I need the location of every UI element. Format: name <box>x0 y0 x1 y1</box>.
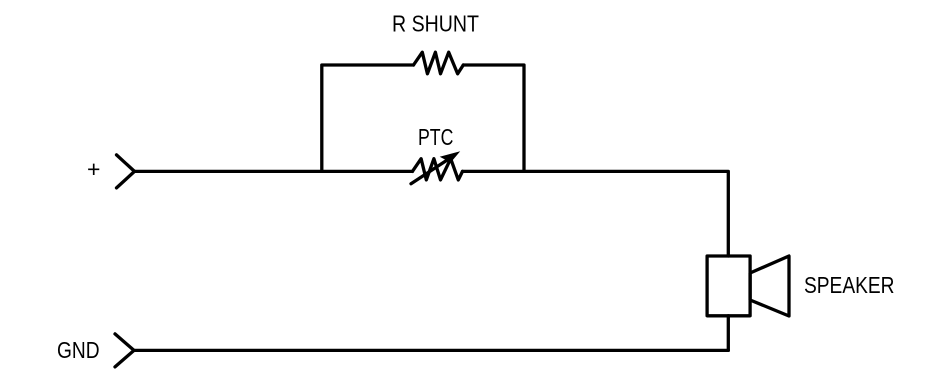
wire gnd rail <box>134 349 728 352</box>
svg-text:SPEAKER: SPEAKER <box>804 272 895 298</box>
wire right shunt branch <box>463 65 524 171</box>
svg-text:GND: GND <box>57 337 100 363</box>
svg-text:PTC: PTC <box>418 124 453 150</box>
wire left shunt branch <box>322 65 414 171</box>
speaker LS1 <box>707 256 894 316</box>
resistor R SHUNT <box>392 11 479 74</box>
wire PTC to speaker <box>463 171 729 256</box>
thermistor PTC <box>411 124 463 184</box>
wire speaker to gnd rail <box>727 316 730 351</box>
svg-text:+: + <box>87 156 100 182</box>
wire + to PTC <box>135 170 413 173</box>
port + <box>87 155 135 188</box>
svg-text:R SHUNT: R SHUNT <box>392 11 479 37</box>
port GND <box>57 334 134 367</box>
